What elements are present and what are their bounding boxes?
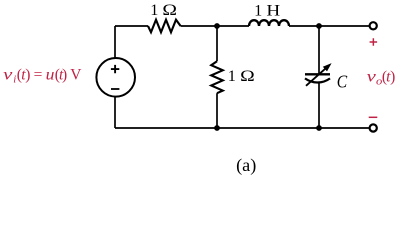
capacitor variable arrow [306,67,327,86]
wire middle branch below R2 [216,93,218,128]
node B junction dot top [316,23,322,29]
svg-text:1: 1 [150,0,158,19]
svg-text:(t)V: (t)V [55,67,83,84]
wire capacitor branch below C [318,83,320,129]
node A junction dot top [214,23,220,29]
wire between L1 and node B [289,25,369,27]
svg-text:Ω: Ω [162,0,177,19]
wire middle branch above R2 [216,26,218,61]
output terminal top [370,22,377,29]
voltage source VS circle [96,58,135,97]
svg-text:C: C [337,71,348,91]
output label vo(t) [367,68,396,87]
source label vi(t)=u(t) V [3,67,82,86]
output plus sign red [370,38,378,46]
wire left vertical above source [114,26,116,58]
capacitor C top plate [305,73,330,75]
resistor R2 1ohm vertical zigzag [211,61,223,93]
wire capacitor branch above C [318,26,320,74]
svg-text:v: v [3,67,12,84]
inductor L1 1H [249,20,289,26]
svg-text:(t): (t) [382,68,395,85]
svg-text:1: 1 [228,66,236,85]
svg-text:(t)=: (t)= [17,67,43,84]
wire top-left horizontal [115,25,148,27]
junction dot bottom right [316,125,322,131]
junction dot bottom left [214,125,220,131]
svg-text:v: v [367,68,376,85]
voltage source plus sign [111,65,119,73]
svg-text:i: i [13,74,16,86]
svg-text:1: 1 [254,0,262,19]
svg-text:Ω: Ω [240,66,255,85]
voltage source minus sign [111,88,119,90]
wire bottom horizontal [115,127,369,129]
wire left vertical below source [114,97,116,129]
output terminal bottom [370,124,377,131]
capacitor C curved bottom plate [305,78,330,82]
svg-text:u: u [46,67,55,84]
resistor R1 1ohm horizontal zigzag [148,20,181,33]
svg-text:H: H [266,0,280,19]
output minus sign red [369,116,378,118]
svg-text:(a): (a) [236,155,256,176]
wire between R1 and node A [181,25,249,27]
